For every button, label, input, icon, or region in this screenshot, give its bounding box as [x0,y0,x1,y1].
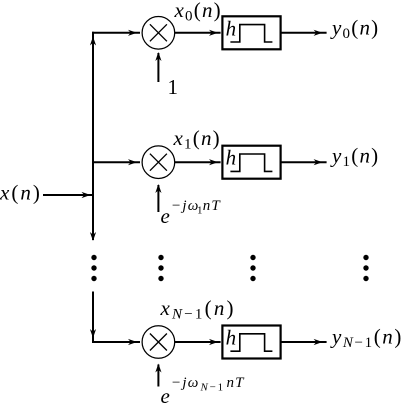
svg-text:x0(n): x0(n) [174,0,222,25]
svg-text:xN−1(n): xN−1(n) [160,296,236,323]
svg-text:e−jω1nT: e−jω1nT [161,198,222,228]
svg-text:1: 1 [168,75,180,99]
svg-text:x(n): x(n) [0,181,42,205]
svg-text:y1(n): y1(n) [330,143,379,170]
svg-text:y0(n): y0(n) [330,16,379,43]
svg-text:e−jωN−1nT: e−jωN−1nT [161,375,246,404]
svg-text:yN−1(n): yN−1(n) [330,324,403,351]
svg-text:x1(n): x1(n) [173,126,221,153]
